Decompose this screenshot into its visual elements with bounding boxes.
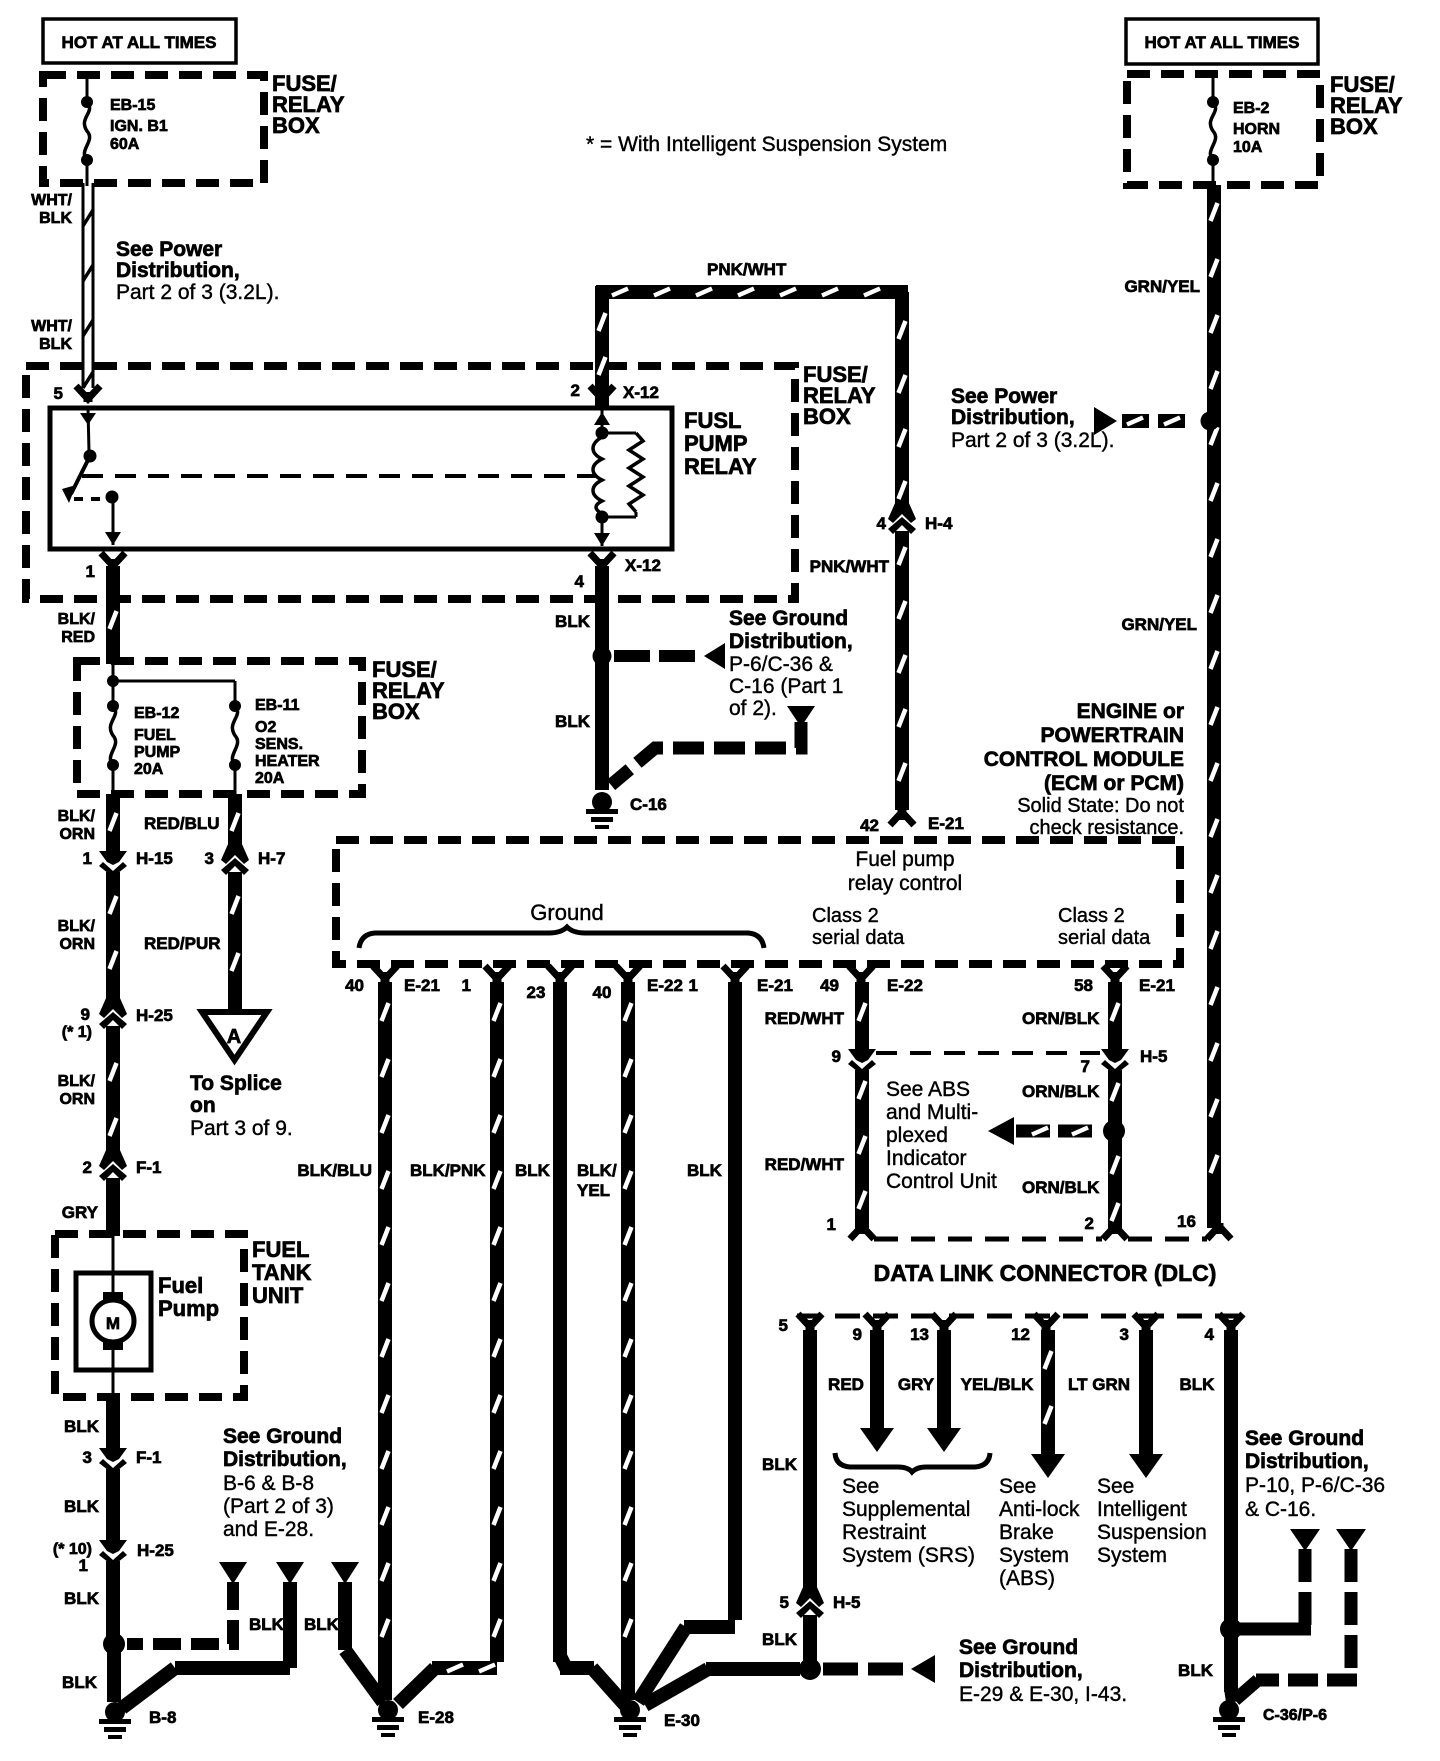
label ORN/BLK (lower)	[1022, 1178, 1100, 1197]
ground C-16	[586, 792, 618, 829]
svg-text:To Splice: To Splice	[190, 1072, 282, 1095]
wire BLK (DLC 4 to junction)	[1224, 1330, 1238, 1625]
label H-4	[925, 514, 953, 533]
label 4 (relay pin 4)	[575, 572, 585, 591]
label ORN/BLK (upper)	[1022, 1009, 1100, 1028]
svg-text:Class 2: Class 2	[812, 905, 879, 927]
svg-text:(* 1): (* 1)	[62, 1024, 92, 1041]
junction dot (E-30 branch)	[799, 1658, 821, 1680]
wire BLK (relay pin 4 to C-16 ground)	[595, 566, 609, 790]
label X-12 (bottom)	[625, 556, 661, 575]
fuel pump relay box	[50, 408, 672, 549]
relay actuating dashed line	[82, 474, 597, 478]
label BLK (below tank)	[64, 1417, 100, 1436]
wire BLK/ORN (H-15 to H-25)	[110, 872, 117, 1005]
brace (SRS arrows)	[835, 1453, 990, 1472]
fuel pump motor	[92, 1234, 134, 1397]
svg-text:Indicator: Indicator	[886, 1147, 967, 1170]
svg-text:BLK: BLK	[1180, 1375, 1216, 1394]
relay coil parallel resistor	[602, 433, 643, 517]
DLC bottom pin connector at x=944	[932, 1314, 956, 1330]
svg-text:BLK: BLK	[515, 1161, 551, 1180]
label E-21 (pin 42)	[928, 814, 964, 833]
svg-text:Distribution,: Distribution,	[959, 1659, 1083, 1682]
label Fuel pump relay control	[848, 848, 962, 895]
svg-text:BLK: BLK	[555, 712, 591, 731]
svg-text:BOX: BOX	[803, 404, 851, 429]
svg-text:40: 40	[345, 976, 364, 995]
reference arrow into C-16 branch	[787, 706, 815, 727]
svg-text:Ground: Ground	[530, 900, 603, 925]
wire BLK/BLU (ECM 40 to E-28)	[382, 982, 389, 1700]
svg-text:C-16: C-16	[630, 795, 667, 814]
svg-text:13: 13	[910, 1325, 929, 1344]
label YEL/BLK	[961, 1375, 1034, 1394]
note See Ground Distribution P-6/C-36 & C-16	[729, 607, 853, 720]
DLC bottom pin connector at x=1146	[1134, 1314, 1158, 1330]
label 40 E-21 (pin)	[345, 976, 440, 995]
label RED/PUR	[144, 934, 221, 953]
svg-text:Anti-lock: Anti-lock	[999, 1498, 1080, 1521]
wire (arrow3 to E-28 ground)	[345, 1582, 383, 1702]
label BLK/ORN (3rd)	[58, 1073, 96, 1108]
ground E-28	[372, 1700, 404, 1737]
svg-text:PNK/WHT: PNK/WHT	[707, 260, 787, 279]
label GRN/YEL (lower)	[1121, 615, 1197, 634]
svg-text:See Ground: See Ground	[959, 1636, 1078, 1659]
label PNK/WHT (lower)	[810, 557, 890, 576]
wire RED/WHT (H-5 to DLC pin 1)	[859, 1070, 866, 1228]
label 4 (H-4)	[877, 514, 887, 533]
relay pin 5 connector	[76, 386, 100, 402]
svg-text:H-25: H-25	[137, 1541, 174, 1560]
label RED/WHT (lower)	[765, 1155, 845, 1174]
fuel tank unit box (dashed)	[55, 1234, 244, 1397]
svg-text:49: 49	[820, 976, 839, 995]
label EB-15 IGN. B1 60A	[110, 97, 168, 153]
reference arrow 4 (to C-36 branch)	[1290, 1529, 1320, 1551]
fuse EB-2 lead wires	[1212, 74, 1215, 185]
svg-text:POWERTRAIN: POWERTRAIN	[1041, 724, 1185, 747]
DLC top line (dashed)	[874, 1237, 1207, 1242]
svg-text:40: 40	[593, 983, 612, 1002]
label F-1 (lower)	[136, 1448, 162, 1467]
fuse/relay box (fuel pump relay, dashed)	[26, 366, 795, 599]
svg-text:58: 58	[1074, 976, 1093, 995]
label 12 (DLC)	[1011, 1325, 1030, 1344]
svg-text:IGN. B1: IGN. B1	[110, 118, 168, 135]
svg-text:See Power: See Power	[951, 385, 1057, 408]
wire RED arrow (DLC 9 to SRS)	[860, 1330, 894, 1452]
wire BLK (junction to C-36/P-6 ground)	[1231, 1633, 1233, 1702]
svg-text:Distribution,: Distribution,	[951, 406, 1075, 429]
note See Anti-lock Brake System (ABS)	[999, 1475, 1080, 1590]
svg-text:1: 1	[689, 976, 698, 995]
label H-5 (lower)	[833, 1593, 860, 1612]
reference arrow 2 (to B-8)	[276, 1562, 304, 1584]
connector H-5 pin 5	[796, 1586, 824, 1618]
connector F-1 pin 2	[99, 1149, 127, 1181]
svg-text:Distribution,: Distribution,	[116, 259, 240, 282]
svg-text:5: 5	[54, 384, 63, 403]
label 3 (DLC)	[1120, 1325, 1129, 1344]
label LT GRN	[1068, 1375, 1130, 1394]
label BLK (1)	[687, 1161, 723, 1180]
svg-text:RELAY: RELAY	[684, 454, 757, 479]
svg-text:serial data: serial data	[1058, 927, 1151, 949]
label BLK/RED	[58, 611, 96, 646]
svg-text:relay control: relay control	[848, 872, 962, 895]
svg-text:PUMP: PUMP	[684, 431, 748, 456]
label Class 2 serial data (right)	[1058, 905, 1151, 949]
svg-text:BLK/: BLK/	[58, 808, 96, 825]
svg-text:UNIT: UNIT	[252, 1283, 304, 1308]
label 3 (H-7)	[205, 849, 214, 868]
svg-text:RED/WHT: RED/WHT	[765, 1155, 845, 1174]
ECM pin connector at x=628	[616, 966, 640, 982]
svg-text:BLK: BLK	[39, 336, 72, 353]
label FUEL TANK UNIT	[252, 1237, 312, 1308]
svg-text:1: 1	[827, 1215, 836, 1234]
svg-text:60A: 60A	[110, 136, 140, 153]
label X-12 (top)	[623, 383, 659, 402]
label BLK (arrow3)	[304, 1615, 340, 1634]
label H-7	[258, 849, 285, 868]
svg-text:12: 12	[1011, 1325, 1030, 1344]
svg-text:TANK: TANK	[252, 1260, 312, 1285]
svg-text:DATA LINK CONNECTOR (DLC): DATA LINK CONNECTOR (DLC)	[874, 1260, 1217, 1286]
fuse EB-12	[107, 700, 119, 771]
label BLK/PNK	[410, 1161, 486, 1180]
label 2 (F-1)	[83, 1158, 92, 1177]
svg-text:BLK: BLK	[762, 1455, 798, 1474]
wire PNK/WHT (relay pin 2 elbow to H-4)	[596, 286, 908, 506]
svg-text:GRY: GRY	[898, 1375, 935, 1394]
wire GRN/YEL (EB-2 fuse to DLC pin 16)	[1211, 185, 1218, 1228]
svg-text:C-16 (Part 1: C-16 (Part 1	[729, 675, 843, 698]
note See Ground Distribution B-6 & B-8	[223, 1425, 347, 1541]
label 9 (DLC)	[853, 1325, 862, 1344]
svg-text:BOX: BOX	[272, 113, 320, 138]
svg-text:BLK: BLK	[687, 1161, 723, 1180]
label BLK (above junction)	[64, 1589, 100, 1608]
dashed branch + arrow (to E-29/E-30 note)	[823, 1655, 935, 1683]
svg-text:Fuel: Fuel	[158, 1273, 203, 1298]
label 1 E-21 (pin)	[689, 976, 793, 995]
svg-text:1: 1	[462, 976, 471, 995]
svg-text:ENGINE or: ENGINE or	[1077, 700, 1184, 723]
svg-text:H-5: H-5	[833, 1593, 860, 1612]
svg-text:(ECM or PCM): (ECM or PCM)	[1044, 772, 1184, 795]
svg-text:BLK/PNK: BLK/PNK	[410, 1161, 486, 1180]
wire BLK (H-5 to junction)	[803, 1615, 817, 1669]
DLC bottom pin connector at x=810	[798, 1314, 822, 1330]
svg-text:YEL: YEL	[577, 1181, 610, 1200]
label WHT/BLK (upper)	[31, 192, 72, 227]
label 58 E-21 (pin)	[1074, 976, 1175, 995]
svg-text:HOT AT ALL TIMES: HOT AT ALL TIMES	[1145, 33, 1300, 52]
svg-text:C-36/P-6: C-36/P-6	[1263, 1707, 1327, 1724]
svg-text:Distribution,: Distribution,	[729, 630, 853, 653]
svg-text:BLK/: BLK/	[58, 611, 96, 628]
wire BLK/YEL (ECM 40 to E-30)	[625, 982, 632, 1700]
label FUSE/RELAY BOX (top right)	[1330, 72, 1403, 139]
svg-text:F-1: F-1	[136, 1448, 162, 1467]
svg-text:Part 2 of 3 (3.2L).: Part 2 of 3 (3.2L).	[116, 281, 279, 304]
svg-text:Part 2 of 3 (3.2L).: Part 2 of 3 (3.2L).	[951, 429, 1114, 452]
label BLK (mid)	[64, 1497, 100, 1516]
svg-text:1: 1	[86, 562, 95, 581]
label FUSE/RELAY BOX (relay box)	[803, 362, 876, 429]
label E-30	[664, 1711, 700, 1730]
svg-text:E-21: E-21	[928, 814, 964, 833]
ECM pin connector at x=385	[373, 966, 397, 982]
label GRY	[898, 1375, 935, 1394]
label 7 (H-5)	[1081, 1057, 1090, 1076]
label BLK (23)	[515, 1161, 551, 1180]
connector F-1 pin 3	[99, 1442, 127, 1474]
wire BLK/ORN (H-25 to F-1)	[110, 1026, 117, 1157]
svg-text:BLK: BLK	[555, 612, 591, 631]
label WHT/BLK (lower)	[31, 318, 72, 353]
dashed line between H-5 pins	[876, 1051, 1100, 1055]
fuse/relay box (EB-15, dashed)	[43, 75, 264, 183]
wire BLK (ECM 1 to E-30)	[638, 982, 735, 1702]
label RED/WHT (upper)	[765, 1009, 845, 1028]
label EB-2 HORN 10A	[1233, 100, 1280, 156]
ECM pin connector at x=861	[849, 966, 873, 982]
label Ground	[530, 900, 603, 925]
label DATA LINK CONNECTOR (DLC)	[874, 1260, 1217, 1286]
label 9 (H-5)	[832, 1047, 841, 1066]
svg-text:M: M	[106, 1314, 120, 1333]
label 5 (H-5)	[780, 1593, 789, 1612]
svg-text:4: 4	[1205, 1325, 1215, 1344]
svg-text:BLK: BLK	[64, 1589, 100, 1608]
DLC pin 2 connector	[1103, 1223, 1127, 1239]
DLC bottom line (dashed)	[797, 1314, 1253, 1319]
label 42	[860, 816, 879, 835]
svg-text:Brake: Brake	[999, 1521, 1054, 1544]
label 9 (*1) (H-25)	[62, 1005, 92, 1041]
power tag HOT AT ALL TIMES (left)	[43, 19, 236, 63]
label 1 (H-15)	[83, 849, 92, 868]
svg-text:F-1: F-1	[136, 1158, 162, 1177]
label 3 (F-1)	[83, 1448, 92, 1467]
svg-text:See ABS: See ABS	[886, 1078, 970, 1101]
wire WHT/BLK (EB-15 to relay pin 5)	[83, 183, 93, 388]
svg-text:H-5: H-5	[1140, 1047, 1167, 1066]
ECM pin connector at x=497	[485, 966, 509, 982]
power tag HOT AT ALL TIMES (right)	[1126, 19, 1318, 64]
relay pin 2 connector X-12	[590, 386, 614, 402]
splice symbol A (triangle)	[202, 1012, 267, 1060]
label BLK/YEL	[577, 1161, 617, 1200]
wire BLK (tank to F-1 pin 3)	[106, 1397, 120, 1448]
label 16 (DLC)	[1177, 1212, 1196, 1231]
svg-text:RED/PUR: RED/PUR	[144, 934, 221, 953]
dashed branch + arrow (to See Ground Distribution P-6/C-36)	[614, 643, 725, 669]
note: * = With Intelligent Suspension System	[586, 133, 947, 156]
label 5 (DLC)	[779, 1316, 788, 1335]
wire LT GRN arrow (DLC 3 to ISS)	[1129, 1330, 1163, 1478]
svg-text:Distribution,: Distribution,	[1245, 1450, 1369, 1473]
svg-text:2: 2	[83, 1158, 92, 1177]
svg-text:plexed: plexed	[886, 1124, 948, 1147]
note See Ground Distribution E-29 E-30 I-43	[959, 1636, 1127, 1706]
label 23 (pin)	[527, 983, 546, 1002]
svg-text:3: 3	[83, 1448, 92, 1467]
brace (Ground pins)	[359, 927, 764, 948]
ground E-30	[614, 1700, 646, 1737]
label H-15	[136, 849, 173, 868]
connector H-5 pin 9	[848, 1043, 876, 1075]
label FUSE/RELAY BOX (fuse box 2)	[372, 657, 445, 724]
label GRN/YEL (upper)	[1124, 277, 1200, 296]
wire BLK (H-25 to junction)	[106, 1561, 120, 1640]
svg-text:E-29 & E-30, I-43.: E-29 & E-30, I-43.	[959, 1683, 1127, 1706]
connector H-7 pin 3	[221, 843, 249, 875]
svg-text:3: 3	[205, 849, 214, 868]
ground B-8	[99, 1702, 131, 1739]
svg-text:ORN/BLK: ORN/BLK	[1022, 1178, 1100, 1197]
relay coil	[593, 408, 610, 546]
svg-text:RED: RED	[828, 1375, 864, 1394]
wire PNK/WHT (H-4 to ECM pin 42)	[899, 531, 906, 810]
relay pin 4 connector X-12	[590, 553, 614, 569]
svg-text:PUMP: PUMP	[134, 744, 181, 761]
connector H-15 pin 1	[99, 845, 127, 877]
label PNK/WHT (top)	[707, 260, 787, 279]
label 1 (DLC)	[827, 1215, 836, 1234]
svg-text:YEL/BLK: YEL/BLK	[961, 1375, 1034, 1394]
label EB-11 O2 SENS. HEATER 20A	[255, 697, 320, 787]
svg-text:See Ground: See Ground	[1245, 1427, 1364, 1450]
svg-text:WHT/: WHT/	[31, 318, 72, 335]
svg-text:X-12: X-12	[625, 556, 661, 575]
label BLK (arrow2)	[249, 1615, 285, 1634]
label E-28	[418, 1708, 454, 1727]
svg-text:Fuel pump: Fuel pump	[855, 848, 954, 871]
svg-text:Part 3 of 9.: Part 3 of 9.	[190, 1117, 293, 1140]
wire ORN/BLK (H-5 to DLC pin 2)	[1112, 1070, 1119, 1228]
svg-text:23: 23	[527, 983, 546, 1002]
svg-text:E-22: E-22	[887, 976, 923, 995]
svg-text:CONTROL MODULE: CONTROL MODULE	[984, 748, 1184, 771]
svg-text:* = With Intelligent Suspensio: * = With Intelligent Suspension System	[586, 133, 947, 156]
label 49 E-22 (pin)	[820, 976, 923, 995]
label B-8	[149, 1708, 176, 1727]
svg-text:H-15: H-15	[136, 849, 173, 868]
svg-text:SENS.: SENS.	[255, 736, 303, 753]
svg-text:RED: RED	[61, 629, 95, 646]
svg-text:HORN: HORN	[1233, 121, 1280, 138]
note See Intelligent Suspension System	[1097, 1475, 1207, 1567]
svg-text:9: 9	[832, 1047, 841, 1066]
label 13 (DLC)	[910, 1325, 929, 1344]
svg-text:BOX: BOX	[1330, 114, 1378, 139]
label ORN/BLK (middle)	[1022, 1082, 1100, 1101]
svg-text:E-21: E-21	[757, 976, 793, 995]
svg-text:FUEL: FUEL	[252, 1237, 309, 1262]
arrow + dashed wire (to ABS note)	[988, 1117, 1098, 1145]
label BLK (DLC 4)	[1180, 1375, 1216, 1394]
note See ABS and Multiplexed Indicator Control Unit	[886, 1078, 997, 1193]
svg-text:EB-11: EB-11	[255, 697, 300, 714]
svg-text:E-21: E-21	[1139, 976, 1175, 995]
label Fuel Pump	[158, 1273, 219, 1321]
svg-text:H-7: H-7	[258, 849, 285, 868]
wire BLK (junction to B-8)	[107, 1648, 121, 1702]
svg-text:System: System	[999, 1544, 1069, 1567]
wire YEL/BLK arrow (DLC 12 to ABS)	[1031, 1330, 1065, 1478]
svg-text:Restraint: Restraint	[842, 1521, 926, 1544]
junction dot on GRN/YEL	[1201, 412, 1220, 431]
wire RED/WHT (ECM 49 to H-5)	[859, 982, 866, 1049]
label BLK (pin 5 wire)	[762, 1455, 798, 1474]
svg-text:BLK/: BLK/	[58, 918, 96, 935]
note See Supplemental Restraint System (SRS)	[842, 1475, 975, 1567]
label Class 2 serial data (left)	[812, 905, 905, 949]
svg-text:HEATER: HEATER	[255, 753, 320, 770]
svg-text:ORN: ORN	[59, 1091, 95, 1108]
label H-5 (pins 9/7)	[1140, 1047, 1167, 1066]
svg-text:See Ground: See Ground	[729, 607, 848, 630]
DLC pin 16 connector	[1207, 1223, 1231, 1239]
connector H-4 pin 4	[888, 502, 916, 534]
svg-text:GRY: GRY	[62, 1203, 99, 1222]
svg-text:BLK/: BLK/	[577, 1161, 617, 1180]
fuse/relay box (EB-12 EB-11, dashed)	[77, 661, 362, 794]
svg-text:See Ground: See Ground	[223, 1425, 342, 1448]
ECM pin connector at x=560	[548, 966, 572, 982]
svg-text:serial data: serial data	[812, 927, 905, 949]
wire (arrow2 to B-8 ground)	[122, 1582, 290, 1708]
svg-text:Suspension: Suspension	[1097, 1521, 1207, 1544]
label RED/BLU	[144, 814, 220, 833]
svg-text:10A: 10A	[1233, 139, 1263, 156]
svg-text:E-28: E-28	[418, 1708, 454, 1727]
label 2 (DLC)	[1085, 1214, 1094, 1233]
ECM pin connector at x=735	[723, 966, 747, 982]
wire BLK/RED (relay pin 1 to fuse box)	[110, 566, 117, 664]
wire GRY arrow (DLC 13 to SRS)	[927, 1330, 961, 1452]
svg-text:(Part 2 of 3): (Part 2 of 3)	[223, 1495, 334, 1518]
junction dot on ORN/BLK	[1103, 1120, 1125, 1142]
svg-text:BLK: BLK	[1178, 1661, 1214, 1680]
label FUSL PUMP RELAY	[684, 408, 757, 479]
svg-text:System: System	[1097, 1544, 1167, 1567]
relay pin 1 connector	[101, 553, 125, 569]
wire RED/PUR (H-7 to splice A)	[232, 872, 239, 1010]
ECM pin connector at x=1115	[1103, 966, 1127, 982]
DLC pin 1 connector	[850, 1223, 874, 1239]
svg-text:BOX: BOX	[372, 699, 420, 724]
reference arrow 1 (to B-8 branch)	[219, 1562, 247, 1584]
label 4 (DLC)	[1205, 1325, 1215, 1344]
label BLK/ORN (2nd)	[58, 918, 96, 953]
DLC bottom pin connector at x=1231	[1219, 1314, 1243, 1330]
svg-text:See: See	[999, 1475, 1036, 1498]
svg-text:check resistance.: check resistance.	[1029, 817, 1184, 839]
svg-text:42: 42	[860, 816, 879, 835]
connector H-5 pin 7	[1101, 1043, 1129, 1075]
svg-text:20A: 20A	[134, 761, 164, 778]
svg-text:3: 3	[1120, 1325, 1129, 1344]
svg-text:See: See	[1097, 1475, 1134, 1498]
svg-text:5: 5	[780, 1593, 789, 1612]
svg-text:9: 9	[853, 1325, 862, 1344]
